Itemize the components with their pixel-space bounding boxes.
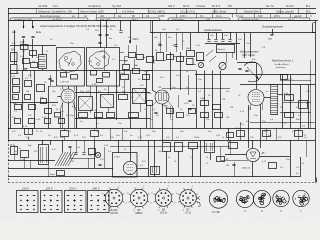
resistor R23 <box>237 131 245 137</box>
wire bus <box>150 70 196 72</box>
capacitor <box>98 164 101 166</box>
wire <box>75 92 150 94</box>
wire <box>10 45 56 47</box>
svg-text:Bl.2: Bl.2 <box>306 10 311 14</box>
border frame corner tick <box>316 178 318 183</box>
wire <box>14 145 16 160</box>
resistor R12 <box>119 95 128 100</box>
svg-text:(auf dem): (auf dem) <box>276 67 286 69</box>
tube V2 pin wires <box>152 102 156 106</box>
trimmer T1 <box>198 62 203 67</box>
resistor <box>281 75 288 80</box>
bus wire y140 <box>8 140 316 142</box>
resistor <box>55 113 61 118</box>
wire <box>84 140 86 152</box>
svg-text:4 Kreise: 4 Kreise <box>196 5 206 8</box>
svg-text:UBF11: UBF11 <box>135 212 143 215</box>
wire <box>10 102 58 104</box>
wire <box>220 71 222 129</box>
wire <box>278 94 283 96</box>
wire <box>140 103 142 112</box>
svg-text:(Sk): (Sk) <box>268 39 272 41</box>
wire <box>64 136 66 140</box>
wire <box>147 70 152 72</box>
wire <box>150 21 152 34</box>
wire <box>162 88 200 90</box>
capacitor Ca1 <box>207 39 210 41</box>
header rule 4 (schematic top) <box>8 20 318 22</box>
svg-text:Ansicht: Ansicht <box>211 211 220 214</box>
wire <box>24 157 26 168</box>
coil L3 (oscillator) <box>39 55 47 69</box>
wire <box>62 86 64 89</box>
wire tube V1 bottom <box>68 103 70 129</box>
header cartouche 4 <box>238 18 310 21</box>
wire left column <box>14 30 16 64</box>
resistor R26 <box>189 143 198 149</box>
wire <box>122 129 124 141</box>
wire <box>160 33 162 52</box>
wire <box>195 74 316 76</box>
svg-text:Netzteil 50Hz: Netzteil 50Hz <box>244 10 260 14</box>
wire <box>180 52 182 90</box>
svg-text:1M: 1M <box>230 107 233 109</box>
svg-text:125 V: 125 V <box>46 187 53 191</box>
IF transformer box 2 <box>101 95 114 108</box>
wire <box>300 85 302 129</box>
resistor R15 <box>201 101 209 106</box>
wire <box>34 71 36 129</box>
dial lamp <box>95 152 100 157</box>
wire tuning drop 1 <box>236 33 238 60</box>
wire <box>124 69 126 75</box>
wire <box>120 21 122 31</box>
header rule A <box>8 8 316 10</box>
svg-text:240 V: 240 V <box>92 187 100 191</box>
wire <box>110 129 112 141</box>
resistor <box>167 109 174 114</box>
wire <box>10 71 12 129</box>
wire <box>196 71 198 129</box>
tuning coil blob 2 <box>89 51 109 69</box>
svg-text:Zusatzlautsprecher: Zusatzlautsprecher <box>261 26 283 29</box>
wire <box>308 85 310 129</box>
wire antenna drop 1 <box>23 39 25 71</box>
wire drop a4 <box>230 33 232 39</box>
header cartouche 2 <box>96 18 160 21</box>
svg-text:Volksempf. Schaltbild Nr. 208: Volksempf. Schaltbild Nr. 208 <box>38 10 72 14</box>
ground bus left <box>8 128 316 130</box>
border frame left <box>8 8 10 140</box>
wire <box>128 45 130 52</box>
tube internal view a <box>273 190 289 206</box>
header tick marks row2 <box>36 8 38 14</box>
wire <box>228 129 230 141</box>
capacitor <box>158 44 161 46</box>
wire heater drop 1 <box>100 21 102 49</box>
resistor <box>25 95 31 100</box>
wire <box>172 129 174 141</box>
wire <box>210 153 212 160</box>
wire <box>264 97 271 99</box>
wire <box>190 33 192 50</box>
rectifier tube V5 (UY11) <box>246 148 259 161</box>
capacitor <box>15 119 21 124</box>
header rule B <box>8 13 316 15</box>
tube V4 (UCL11 output) <box>123 161 136 174</box>
wire <box>178 95 180 108</box>
wire <box>196 60 205 62</box>
antenna series coil L1 <box>21 45 29 50</box>
box <box>147 101 153 106</box>
wire <box>250 122 316 124</box>
wire <box>30 71 32 79</box>
resistor R4 <box>187 59 194 65</box>
resistor R9 <box>37 85 45 92</box>
wire <box>48 86 50 129</box>
capacitor <box>68 146 71 148</box>
wire bus <box>10 70 150 72</box>
wire <box>200 88 230 90</box>
electrolytic cap 2x50uF <box>163 143 171 152</box>
wire <box>183 56 186 58</box>
svg-text:Ser. Nr.: Ser. Nr. <box>266 5 275 8</box>
tube internal view L <box>293 190 309 206</box>
oscillator transistor-like trimmer <box>219 62 226 69</box>
wire <box>225 154 246 156</box>
wire <box>168 101 172 106</box>
resistor R24 <box>227 133 234 138</box>
capacitor C10 <box>188 100 191 102</box>
wire antenna drop 2 <box>32 39 34 58</box>
bus wire (top right horizontal) <box>150 32 316 34</box>
capacitor <box>45 119 51 124</box>
svg-text:Stromlaufplan: Stromlaufplan <box>172 18 184 21</box>
capacitor <box>24 68 27 70</box>
wire <box>42 140 44 145</box>
wire <box>280 80 311 82</box>
box <box>11 147 18 155</box>
svg-text:0,5M: 0,5M <box>200 98 205 100</box>
speaker jack symbol <box>272 29 274 34</box>
wire <box>173 56 176 58</box>
wire <box>42 46 44 56</box>
svg-text:50 Hz: 50 Hz <box>183 5 190 8</box>
svg-text:40 412: 40 412 <box>286 5 294 8</box>
resistor <box>133 69 140 74</box>
wire <box>75 118 150 120</box>
resistor R19 <box>157 53 164 61</box>
resistor R6 <box>13 79 20 85</box>
resistor <box>57 171 65 176</box>
resistor R7 <box>13 87 20 93</box>
wire <box>96 86 98 129</box>
capacitor <box>59 119 65 124</box>
wire <box>232 53 234 59</box>
capacitor <box>50 80 53 82</box>
wire <box>152 21 154 34</box>
resistor R21 <box>299 101 308 109</box>
capacitor <box>263 131 271 137</box>
wire <box>250 104 252 110</box>
svg-text:UCH11: UCH11 <box>110 212 118 215</box>
coupling box <box>133 89 146 104</box>
wire <box>119 52 124 54</box>
svg-text:UCH11 UBF11: UCH11 UBF11 <box>148 10 165 14</box>
wire <box>104 147 106 168</box>
svg-text:1M: 1M <box>26 91 29 93</box>
wire <box>212 71 214 129</box>
wire bus y147 <box>110 146 230 148</box>
wire <box>50 75 52 86</box>
svg-text:mit Allstrom: mit Allstrom <box>88 5 101 8</box>
svg-text:kHz: kHz <box>228 5 233 8</box>
capacitor C3 <box>98 34 101 36</box>
wire <box>298 129 300 141</box>
wire <box>22 71 24 129</box>
switch diagonal <box>206 50 213 56</box>
wire join <box>205 43 240 45</box>
wire <box>118 140 120 153</box>
wire <box>76 140 78 152</box>
wire <box>234 162 236 177</box>
svg-text:UCL11: UCL11 <box>160 212 168 215</box>
wire <box>8 160 55 162</box>
svg-text:1M: 1M <box>222 99 225 101</box>
capacitor <box>238 68 241 70</box>
capacitor C14 <box>91 131 99 137</box>
wire <box>182 33 184 50</box>
header cartouche 3 <box>168 18 230 21</box>
wire <box>48 86 56 88</box>
svg-text:Bereich: Bereich <box>218 48 226 51</box>
svg-text:Außenantenne: Außenantenne <box>203 28 222 32</box>
wire <box>192 149 194 177</box>
tube V2 (UBF11) <box>155 90 169 104</box>
svg-text:220 V: 220 V <box>168 5 175 8</box>
svg-text:6.14: 6.14 <box>53 5 58 8</box>
wire <box>146 71 148 129</box>
wire <box>74 101 76 129</box>
svg-text:Ausf. 1948: Ausf. 1948 <box>100 18 110 21</box>
wire tube V1 top <box>68 86 70 89</box>
fuse box <box>21 151 29 158</box>
wire <box>283 102 311 104</box>
wire <box>170 52 172 90</box>
wire <box>162 104 166 107</box>
wire <box>108 86 110 94</box>
wire <box>62 140 64 152</box>
svg-text:1M: 1M <box>226 117 229 119</box>
svg-text:C: C <box>261 209 263 213</box>
svg-text:110 V: 110 V <box>22 187 29 191</box>
resistor <box>23 59 30 64</box>
svg-text:1M: 1M <box>11 50 14 52</box>
capacitor Ca3 <box>221 39 224 41</box>
wire <box>152 90 157 93</box>
capacitor C7 <box>29 105 36 110</box>
resistor <box>217 157 225 162</box>
wire <box>162 140 164 142</box>
output stage box <box>113 153 138 178</box>
wire <box>62 103 64 129</box>
svg-text:1.ZF 473: 1.ZF 473 <box>60 82 70 84</box>
wire <box>134 59 136 68</box>
wire <box>266 129 268 141</box>
svg-text:1M: 1M <box>158 43 161 45</box>
wire <box>124 80 126 95</box>
svg-text:Ca 7644: Ca 7644 <box>38 5 48 8</box>
wire <box>48 165 50 177</box>
wire tube V3 bottom <box>248 105 250 148</box>
wire <box>212 140 214 141</box>
wire tube V2 bottom <box>162 104 164 140</box>
svg-text:Allstrom-Super 220V: Allstrom-Super 220V <box>80 10 104 14</box>
resistor R5 <box>197 53 204 61</box>
wire <box>30 160 32 168</box>
wire <box>76 86 78 129</box>
tube V1 (UCH11) <box>61 89 75 103</box>
svg-text:Antennengrundriss 4 stufiger: Antennengrundriss 4 stufiger TD 26 W 48 … <box>39 24 116 28</box>
IF output transformer (hatched) <box>271 85 278 115</box>
tube V3 (UCL11) <box>248 90 264 106</box>
resistor R18 <box>215 113 223 118</box>
resistor <box>177 113 184 118</box>
wire switch join <box>70 158 95 160</box>
svg-text:RadioGramUmsch. 1: RadioGramUmsch. 1 <box>272 61 294 63</box>
wire <box>290 75 292 129</box>
wire <box>306 140 308 157</box>
wire <box>226 53 228 63</box>
svg-text:UY11: UY11 <box>185 212 191 215</box>
svg-text:220V~: 220V~ <box>133 39 140 41</box>
capacitor Ca2 <box>214 39 217 41</box>
resistor R16 <box>213 105 221 110</box>
tube internal view G <box>209 190 227 208</box>
svg-text:Funkwerk Dresden: Funkwerk Dresden <box>242 19 259 21</box>
band switch box <box>217 45 235 53</box>
wire <box>262 103 264 110</box>
wire <box>116 71 118 121</box>
wire <box>148 140 150 177</box>
wire <box>70 148 72 158</box>
wire <box>163 60 166 62</box>
svg-text:1M: 1M <box>94 110 97 112</box>
capacitor <box>48 78 51 80</box>
wire <box>260 156 290 158</box>
svg-text:(CAT combi): (CAT combi) <box>242 54 255 57</box>
wire <box>252 162 254 177</box>
capacitor C15 <box>269 163 277 169</box>
svg-text:1M: 1M <box>158 87 161 89</box>
wire <box>150 105 152 129</box>
capacitor <box>29 119 35 124</box>
svg-text:4+1 Rohre: 4+1 Rohre <box>122 10 135 14</box>
resistor R13 <box>107 113 115 118</box>
wire <box>166 151 168 177</box>
wire <box>280 112 311 114</box>
tube socket bottom view UY11 <box>180 190 197 207</box>
svg-text:1M: 1M <box>96 131 99 133</box>
wire <box>230 140 232 155</box>
wire <box>153 60 156 62</box>
wire <box>154 140 156 177</box>
wire <box>166 33 168 52</box>
svg-text:Ton Abst Skala: Ton Abst Skala <box>274 63 289 66</box>
svg-text:Typ 264 W: Typ 264 W <box>52 19 62 21</box>
resistor R27 <box>229 143 238 149</box>
svg-text:UCL11 UY11: UCL11 UY11 <box>180 10 195 14</box>
resistor R1 <box>11 53 18 62</box>
wire <box>90 110 92 113</box>
band filter can 2 (box) <box>87 48 120 87</box>
wire <box>276 129 278 141</box>
wire <box>198 21 200 34</box>
tube internal view h <box>236 190 253 207</box>
right edge terminal bracket <box>312 23 314 33</box>
svg-text:Gleichr. geprüft: Gleichr. geprüft <box>276 10 294 14</box>
wire <box>186 64 196 66</box>
trimmer cap inside can 1 <box>61 73 67 78</box>
wire <box>130 71 132 129</box>
svg-text:2.ZF: 2.ZF <box>92 84 97 86</box>
wire <box>140 129 142 141</box>
antenna coupling capacitor C1 <box>22 36 25 38</box>
header column ticks <box>78 14 80 18</box>
wire tuning drop 2 <box>244 33 246 58</box>
resistor R25 <box>25 129 33 135</box>
wire <box>90 86 92 96</box>
capacitor C9 <box>121 75 129 80</box>
tube socket bottom view UBF11 <box>130 189 147 206</box>
speaker transformer <box>151 167 160 175</box>
resistor <box>123 65 130 70</box>
capacitor <box>232 164 235 166</box>
wire <box>50 140 52 145</box>
resistor R10 <box>79 113 88 118</box>
wire drop a1 <box>208 33 210 39</box>
tube V1 pin wires <box>60 102 63 110</box>
wire drop a2 <box>216 33 218 39</box>
wire <box>124 57 126 64</box>
wire <box>252 140 254 148</box>
svg-text:100p: 100p <box>120 73 126 75</box>
svg-text:Entst.: Entst. <box>50 173 56 176</box>
tube socket bottom view UCH11 <box>105 189 122 206</box>
component cluster <box>147 57 154 63</box>
chassis ground bus <box>8 176 300 178</box>
svg-text:UM11 Skala: UM11 Skala <box>212 10 226 14</box>
small pointer symbol <box>196 196 200 200</box>
wire tube V2 top <box>152 33 154 90</box>
band filter can 1 (box) <box>57 48 85 87</box>
wire <box>260 104 262 148</box>
wire heater drop 2 <box>106 21 108 49</box>
svg-text:Erde: Erde <box>36 31 42 34</box>
tube internal view C <box>253 190 270 207</box>
svg-text:Blatt 2: Blatt 2 <box>132 18 139 21</box>
wire <box>8 168 113 170</box>
capacitor <box>74 152 77 154</box>
wire drop a3 <box>222 33 224 39</box>
wire <box>282 75 284 129</box>
wire <box>94 129 96 132</box>
wire <box>170 106 172 118</box>
wire <box>130 140 132 161</box>
wire <box>74 86 76 91</box>
svg-text:gez. K.: gez. K. <box>288 19 295 21</box>
resistor R8 <box>25 81 32 87</box>
